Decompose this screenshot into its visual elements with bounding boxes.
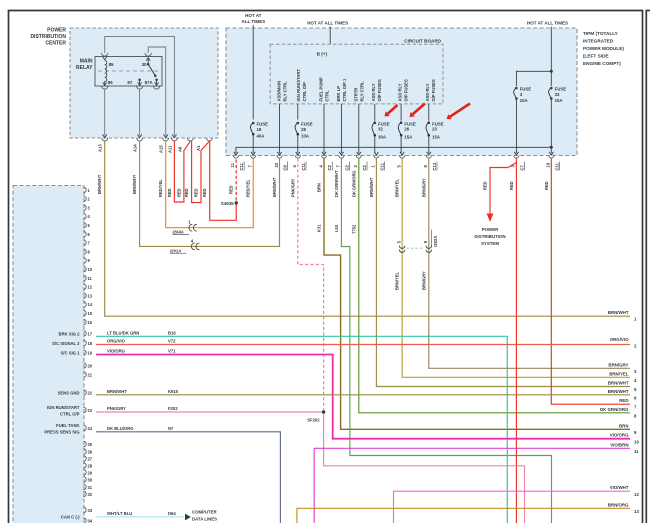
PCM connector pin 23 bump <box>84 407 87 412</box>
wire WHT/LT BLU pin 33 circuit D64 to computer data lines <box>96 516 184 518</box>
svg-text:A11: A11 <box>168 145 173 153</box>
PCM connector pin 14 bump <box>84 302 87 307</box>
adjacent page frame edge <box>646 11 650 523</box>
PCM connector pin 32 bump <box>84 491 87 496</box>
svg-text:BRN/GRY: BRN/GRY <box>421 178 426 197</box>
TIPM pin 2/C2 <box>357 152 361 155</box>
arrow to POWER DISTRIBUTION SYSTEM <box>487 214 494 223</box>
wire B+ feed to circuit board <box>329 27 331 45</box>
PDC pin A13 bump <box>102 138 108 141</box>
svg-text:CENTER: CENTER <box>45 41 66 47</box>
fuse F3 10A <box>514 87 532 103</box>
wire BRN/WHT pin 1 C11 to right edge row 5 <box>376 158 630 386</box>
svg-text:15A: 15A <box>404 135 412 140</box>
svg-text:POWER MODULE): POWER MODULE) <box>583 46 624 51</box>
svg-text:CIRCUIT BOARD: CIRCUIT BOARD <box>404 38 441 43</box>
svg-text:DATA LINES: DATA LINES <box>192 517 217 522</box>
svg-text:28: 28 <box>301 127 306 132</box>
svg-text:33: 33 <box>88 508 93 513</box>
TIPM pin 3/C7 <box>514 152 518 155</box>
svg-text:BRN/GRY: BRN/GRY <box>608 362 628 367</box>
splice S4935 <box>235 201 238 204</box>
wire feed to fuses 3 and 33 <box>550 27 552 87</box>
svg-text:CTRL: CTRL <box>325 90 330 102</box>
arrow at pin A11 <box>172 134 176 137</box>
svg-text:RED: RED <box>176 188 181 197</box>
PCM connector pin 7 bump <box>84 240 87 245</box>
svg-text:PRESS SENS SIG: PRESS SENS SIG <box>44 429 79 434</box>
svg-text:S/C SIG 1: S/C SIG 1 <box>61 350 81 355</box>
wire VIO/BRN from bottom edge to right edge row 11 <box>314 448 630 523</box>
svg-text:28: 28 <box>88 463 93 468</box>
svg-text:VIO/ORG: VIO/ORG <box>610 433 629 438</box>
arrow COMPUTER DATA LINES <box>185 514 191 521</box>
svg-text:PNK/GRY: PNK/GRY <box>107 406 126 411</box>
svg-text:C11: C11 <box>555 162 560 170</box>
svg-text:ASD/MAIN: ASD/MAIN <box>276 81 281 102</box>
svg-text:DK BLU/ORG: DK BLU/ORG <box>107 426 134 431</box>
svg-text:20: 20 <box>88 363 93 368</box>
PCM connector pin 31 bump <box>84 484 87 489</box>
PCM connector pin 2 bump <box>84 196 87 201</box>
svg-text:86: 86 <box>108 80 113 85</box>
svg-text:O/P FUSES: O/P FUSES <box>377 79 382 101</box>
svg-text:15: 15 <box>88 311 93 316</box>
svg-text:21: 21 <box>88 372 93 377</box>
svg-text:L53: L53 <box>334 224 339 232</box>
PCM connector pin 27 bump <box>84 456 87 461</box>
wire relay 30 loop to pin A15 <box>148 47 166 136</box>
svg-text:N7: N7 <box>168 426 174 431</box>
TIPM pin 8/C13 <box>427 152 431 155</box>
svg-text:C11: C11 <box>380 162 385 170</box>
wire fuse 18 to pin 7 <box>252 135 254 153</box>
wire BRN/GRY pin 8 C13 to right edge row 3 via I202A <box>429 158 630 368</box>
PCM connector pin 29 bump <box>84 470 87 475</box>
svg-text:BRN: BRN <box>619 423 629 428</box>
PCM connector pin 17 bump <box>84 331 87 336</box>
svg-text:30A: 30A <box>378 135 386 140</box>
svg-text:14: 14 <box>88 302 93 307</box>
PCM connector pin 22 bump <box>84 390 87 395</box>
svg-text:22: 22 <box>274 162 279 167</box>
svg-text:IGN RUN/START: IGN RUN/START <box>296 69 301 102</box>
svg-text:C11: C11 <box>301 162 306 170</box>
svg-text:ENGINE COMPT): ENGINE COMPT) <box>583 61 621 66</box>
TIPM pin 22/C8 <box>277 152 281 155</box>
svg-text:VIO/ORG: VIO/ORG <box>107 348 125 353</box>
PCM connector pin 6 bump <box>84 231 87 236</box>
svg-text:C2: C2 <box>345 164 350 170</box>
relay bottom bump pin 87 <box>137 86 143 89</box>
arrow at pin A13 <box>103 134 107 137</box>
svg-text:B (+): B (+) <box>317 52 328 57</box>
svg-text:VIO/WHT: VIO/WHT <box>610 485 629 490</box>
svg-text:POWER: POWER <box>47 28 66 34</box>
wire FUEL PUMP CTRL stub to pin 4 C2 <box>323 104 325 153</box>
PCM connector pin 10 bump <box>84 267 87 272</box>
svg-text:BRN/ORG: BRN/ORG <box>608 502 629 507</box>
wire fuse 28 to pin 4 C11 <box>297 135 299 153</box>
wire PNK/GRY SF202 down to bottom edge <box>324 414 525 523</box>
svg-text:12: 12 <box>88 285 93 290</box>
node junction fuse3/fuse33 feed <box>550 70 553 73</box>
wire DK GRN/ORG pin 2 C2 to right edge row 8 <box>359 158 630 412</box>
svg-text:S/C SIGNAL 2: S/C SIGNAL 2 <box>52 341 80 346</box>
PCM connector C1 box <box>13 186 84 523</box>
wire VIO/WHT from bottom edge to right edge row 12 <box>394 491 631 523</box>
svg-text:POWER: POWER <box>482 227 499 232</box>
PCM connector pin 1 bump <box>84 187 87 192</box>
svg-text:10A: 10A <box>555 98 563 103</box>
svg-text:K915: K915 <box>168 389 179 394</box>
TIPM pin 7 <box>251 152 255 155</box>
PCM connector pin 33 bump <box>84 507 87 512</box>
wire BRN/WHT pin 22 circuit K915 to right edge row 6 <box>96 394 630 396</box>
PCM connector pin 25 bump <box>84 441 87 446</box>
wire BRN/WHT pin A13 to right edge row 1 <box>105 141 630 316</box>
inline connector I202A pins 5 and 9 <box>399 246 405 249</box>
wire LT BLU/DK GRN pin 17 circuit B16 down to bottom edge <box>96 336 507 523</box>
svg-text:11: 11 <box>88 276 93 281</box>
svg-text:HOT AT ALL TIMES: HOT AT ALL TIMES <box>527 21 568 26</box>
svg-text:ORG/VIO: ORG/VIO <box>107 339 126 344</box>
svg-text:31: 31 <box>88 485 93 490</box>
svg-text:15A: 15A <box>432 135 440 140</box>
wire relay 85 loop to pin A11 <box>105 37 175 136</box>
PCM connector pin 4 bump <box>84 214 87 219</box>
svg-text:23: 23 <box>432 127 437 132</box>
svg-text:RED/YEL: RED/YEL <box>158 179 163 197</box>
wire BRN/YEL pin 5 to right edge row 4 via I202A <box>402 158 630 377</box>
svg-text:RLY CTRL: RLY CTRL <box>282 81 287 102</box>
svg-text:23: 23 <box>88 408 93 413</box>
wire fuse 23 to pin 8 C13 <box>428 137 430 154</box>
PCM connector pin 18 bump <box>84 340 87 345</box>
relay fixed contact 87A <box>155 78 158 81</box>
wire BRN/WHT pin A14 to TIPM pin 22 C8 via I201A <box>140 141 280 247</box>
svg-text:RED: RED <box>184 188 189 197</box>
TIPM pin 11/C11 <box>234 152 238 155</box>
relay coil 86 arrow down <box>104 81 106 84</box>
wire RED/YEL pin A15 to TIPM pin 7 via I204A <box>166 141 254 228</box>
PCM connector pin 9 bump <box>84 258 87 263</box>
svg-text:25: 25 <box>88 442 93 447</box>
svg-text:A6: A6 <box>178 146 183 152</box>
svg-text:BRK SIG 2: BRK SIG 2 <box>59 331 81 336</box>
wire fuse 33 to bus and pin 19 C11 <box>550 100 552 153</box>
node bus to fuse 33 junction <box>550 146 553 149</box>
PDC pin A1 bump <box>207 138 213 141</box>
fuse F23 15A <box>426 121 444 139</box>
svg-text:BRN/WHT: BRN/WHT <box>132 174 137 194</box>
wire ASD RLY stub to fuse 26 <box>400 104 402 121</box>
relay K1 MAIN RELAY box <box>95 57 162 87</box>
svg-text:13: 13 <box>88 293 93 298</box>
annotation arrow at fuse 26 <box>413 104 425 115</box>
svg-text:26: 26 <box>404 127 409 132</box>
svg-text:A14: A14 <box>133 144 138 152</box>
svg-text:FUEL PUMP: FUEL PUMP <box>319 77 324 101</box>
wire TIPM internal bus <box>236 147 551 153</box>
PCM connector pin 8 bump <box>84 249 87 254</box>
svg-text:DK GRN/ORG: DK GRN/ORG <box>351 170 356 197</box>
svg-text:S4935: S4935 <box>221 201 234 206</box>
relay top cup pin 30 <box>145 53 151 56</box>
svg-text:32: 32 <box>88 492 93 497</box>
svg-text:BRN/WHT: BRN/WHT <box>97 174 102 194</box>
svg-text:ASD RLY: ASD RLY <box>397 83 402 101</box>
svg-text:F202: F202 <box>168 406 178 411</box>
PCM connector pin 26 bump <box>84 449 87 454</box>
svg-text:RELAY: RELAY <box>76 65 93 71</box>
wire PNK/GRY pin 23 circuit F202 to splice SF202 <box>96 411 324 413</box>
svg-text:17: 17 <box>88 331 93 336</box>
svg-text:19: 19 <box>88 350 93 355</box>
svg-text:30: 30 <box>88 477 93 482</box>
wire RED pin 19 C11 to right edge row 7 <box>551 158 630 404</box>
PCM connector pin 12 bump <box>84 284 87 289</box>
svg-text:BRN/WHT: BRN/WHT <box>608 310 629 315</box>
svg-text:C13: C13 <box>432 162 437 170</box>
svg-text:(LEFT SIDE: (LEFT SIDE <box>583 54 609 59</box>
PCM connector pin 5 bump <box>84 223 87 228</box>
wire BRN/ORG from bottom edge to right edge row 13 <box>297 508 630 523</box>
svg-text:ASD RLY: ASD RLY <box>425 83 430 101</box>
svg-text:ORG/VIO: ORG/VIO <box>610 337 629 342</box>
relay pin 85 arrow down into coil <box>103 57 107 60</box>
TIPM pin 5 <box>400 152 404 155</box>
svg-text:V71: V71 <box>168 348 176 353</box>
wire VIO/ORG pin 19 circuit V71 to right edge row 10 <box>96 355 630 439</box>
relay top cup pin 85 <box>102 53 108 56</box>
wire DK GRN/WHT pin 7 C2 down to bottom edge <box>341 158 551 523</box>
svg-text:13: 13 <box>634 509 639 514</box>
svg-text:18: 18 <box>257 127 262 132</box>
svg-text:10A: 10A <box>301 134 309 139</box>
svg-text:RED: RED <box>167 188 172 197</box>
svg-text:RLY CTRL: RLY CTRL <box>360 81 365 102</box>
fuse F18 40A <box>250 122 268 139</box>
svg-text:A13: A13 <box>98 144 103 152</box>
svg-text:DK GRN/WHT: DK GRN/WHT <box>334 170 339 197</box>
TIPM pin 19/C11 <box>549 152 553 155</box>
TIPM pin 7/C2 <box>339 152 343 155</box>
svg-text:C11: C11 <box>239 162 244 170</box>
svg-text:RED: RED <box>229 185 234 194</box>
svg-text:18: 18 <box>88 341 93 346</box>
PCM connector pin 11 bump <box>84 275 87 280</box>
svg-text:IGN RUN/START: IGN RUN/START <box>47 405 80 410</box>
TIPM pin 4/C11 <box>296 152 300 155</box>
wire STRTR RLY CTRL stub to pin 2 C2 <box>358 104 360 153</box>
svg-text:CTRL O/P 1: CTRL O/P 1 <box>342 78 347 102</box>
TIPM pin 4/C2 <box>322 152 326 155</box>
PCM connector pin 28 bump <box>84 463 87 468</box>
svg-text:DK GRN/ORG: DK GRN/ORG <box>600 407 629 412</box>
relay bottom bump pin 86 <box>102 86 108 89</box>
svg-text:11: 11 <box>230 162 235 167</box>
PDC pin A6 bump <box>187 138 193 141</box>
TIPM module box <box>226 28 577 156</box>
wire ASD/MAIN RLY CTRL stub to pin 22 C8 <box>279 104 281 153</box>
svg-text:26: 26 <box>88 449 93 454</box>
PCM connector pin 19 bump <box>84 350 87 355</box>
PCM connector pin 13 bump <box>84 293 87 298</box>
wire BRK LP CTRL stub to pin 7 C2 <box>340 104 342 153</box>
svg-text:RED: RED <box>202 188 207 197</box>
circuit board box <box>270 44 443 104</box>
svg-text:BRN/WHT: BRN/WHT <box>608 381 629 386</box>
svg-text:BRN/WHT: BRN/WHT <box>272 177 277 197</box>
svg-text:RED: RED <box>483 181 488 190</box>
TIPM pin 1/C11 <box>374 152 378 155</box>
svg-text:12: 12 <box>634 492 639 497</box>
svg-text:C7: C7 <box>520 164 525 170</box>
wire fuse 26 to pin 5 <box>400 137 402 154</box>
wire feed to fuse 18 <box>252 25 254 120</box>
svg-text:RED: RED <box>509 181 514 190</box>
svg-text:LT BLU/DK GRN: LT BLU/DK GRN <box>107 330 139 335</box>
inline connector I204A pin 1 <box>189 224 192 231</box>
svg-text:A15: A15 <box>158 145 163 153</box>
arrow at pin A14 <box>138 134 142 137</box>
svg-text:V72: V72 <box>168 339 176 344</box>
PCM connector pin 21 bump <box>84 372 87 377</box>
svg-text:11: 11 <box>634 449 639 454</box>
PCM connector pin 16 bump <box>84 319 87 324</box>
svg-text:TIPM (TOTALLY: TIPM (TOTALLY <box>583 31 619 36</box>
annotation arrow at fuse 32 <box>388 105 398 114</box>
svg-text:C8: C8 <box>283 164 288 170</box>
relay fixed contact 87 <box>138 78 141 81</box>
svg-text:87: 87 <box>127 80 132 85</box>
svg-text:WHT/LT BLU: WHT/LT BLU <box>107 511 132 516</box>
PCM connector pin 20 bump <box>84 363 87 368</box>
svg-text:ALL TIMES: ALL TIMES <box>241 19 265 24</box>
svg-text:MAIN: MAIN <box>80 59 93 65</box>
svg-text:I202A: I202A <box>433 236 438 247</box>
svg-text:STRTR: STRTR <box>354 88 359 102</box>
PDC pin A15 bump <box>163 138 169 141</box>
wire relay 87 to pin A14 <box>139 89 141 135</box>
svg-text:RED: RED <box>194 188 199 197</box>
svg-text:40A: 40A <box>257 134 265 139</box>
svg-text:10: 10 <box>634 440 639 445</box>
PCM connector pin 30 bump <box>84 477 87 482</box>
wire ORG/VIO pin 18 circuit V72 to right edge row 2 <box>96 344 630 346</box>
svg-text:33: 33 <box>555 92 560 97</box>
relay contact 30 arrow up <box>147 58 149 64</box>
svg-text:A1: A1 <box>196 145 201 151</box>
svg-text:SENS GND: SENS GND <box>58 390 80 395</box>
wire ASD RLY stub to fuse 23 <box>428 104 430 121</box>
fuse F32 30A <box>372 121 390 139</box>
wire PNK/GRY dashed fuse28 pin 4 C11 to splice SF202 <box>298 158 324 410</box>
svg-text:RED: RED <box>544 181 549 190</box>
svg-text:C2: C2 <box>362 164 367 170</box>
inline connector I201A pin 4 <box>191 243 194 250</box>
svg-text:HOT AT: HOT AT <box>245 13 261 18</box>
relay coil (pins 85-86) <box>105 61 107 82</box>
svg-text:BRK LP: BRK LP <box>336 86 341 102</box>
svg-text:BRN/YEL: BRN/YEL <box>609 371 629 376</box>
svg-text:RED/YEL: RED/YEL <box>246 179 251 197</box>
wire DK BLU/ORG pin 24 circuit N7 down to bottom edge <box>96 432 280 523</box>
svg-text:CTRL O/P: CTRL O/P <box>60 411 80 416</box>
svg-text:34: 34 <box>88 518 93 523</box>
svg-text:B16: B16 <box>168 330 176 335</box>
svg-text:VIO/BRN: VIO/BRN <box>610 442 628 447</box>
svg-text:DISTRIBUTION: DISTRIBUTION <box>474 234 505 239</box>
svg-text:27: 27 <box>88 456 93 461</box>
svg-text:D64: D64 <box>168 511 176 516</box>
wire fuse 3 to pin 3 C7 <box>515 100 517 153</box>
svg-text:BRN/WHT: BRN/WHT <box>608 389 629 394</box>
svg-text:T752: T752 <box>351 224 356 234</box>
wire fuse 32 to pin 1 C11 <box>374 137 376 154</box>
svg-text:BRN: BRN <box>317 183 322 192</box>
svg-text:O/P FUSES: O/P FUSES <box>403 79 408 101</box>
svg-text:32: 32 <box>378 127 383 132</box>
annotation arrow at fuse 23 <box>450 104 470 117</box>
svg-text:10: 10 <box>88 267 93 272</box>
svg-text:SYSTEM: SYSTEM <box>481 241 499 246</box>
PCM connector pin 24 bump <box>84 425 87 430</box>
arrow at pin A15 <box>164 134 168 137</box>
svg-text:BRN/WHT: BRN/WHT <box>369 177 374 197</box>
wire RED pin A1 to splice S4935 <box>210 141 237 220</box>
PDC pin A11 bump <box>172 138 178 141</box>
relay bottom bump pin 87A <box>154 86 160 89</box>
wire RED dashed S4935 to TIPM pin 11 C11 <box>235 158 237 200</box>
PDC pin A14 bump <box>137 138 143 141</box>
svg-text:24: 24 <box>88 426 93 431</box>
svg-text:C2: C2 <box>327 164 332 170</box>
svg-text:O/P FUSES: O/P FUSES <box>431 79 436 101</box>
fuse F26 15A <box>398 121 416 139</box>
svg-text:RED: RED <box>619 398 628 403</box>
fuse F33 10A <box>549 87 567 103</box>
wire BRN pin 4 C2 to right edge row 9 <box>324 158 630 429</box>
svg-text:BRN/GRY: BRN/GRY <box>421 271 426 290</box>
wire relay 86 to pin A13 <box>104 89 106 135</box>
power distribution center box (PDC) <box>70 28 218 138</box>
svg-text:FUEL TANK: FUEL TANK <box>56 423 79 428</box>
wire RED jumper A6 to A1 <box>192 141 210 202</box>
svg-text:HOT AT ALL TIMES: HOT AT ALL TIMES <box>307 21 348 26</box>
svg-text:PNK/GRY: PNK/GRY <box>290 178 295 197</box>
splice SF202 <box>322 410 325 413</box>
relay mechanical link dashed line <box>98 70 159 72</box>
wire RED pin 3 C7 down to bottom edge <box>515 158 517 523</box>
svg-text:29: 29 <box>88 470 93 475</box>
svg-text:I201A: I201A <box>170 248 181 253</box>
wire RED branch to power distribution system <box>490 163 516 214</box>
svg-text:COMPUTER: COMPUTER <box>192 510 217 515</box>
svg-text:19: 19 <box>546 162 551 167</box>
svg-text:30: 30 <box>142 62 147 67</box>
PCM connector pin 3 bump <box>84 205 87 210</box>
fuse F28 10A <box>295 122 313 139</box>
svg-text:CAN C (-): CAN C (-) <box>61 514 80 519</box>
svg-text:BRN/YEL: BRN/YEL <box>395 179 400 197</box>
wire RED jumper A11 to A6 <box>174 141 190 202</box>
svg-text:I204A: I204A <box>173 230 184 235</box>
wire IGN RUN/START stub to fuse 28 <box>297 104 299 120</box>
svg-text:DISTRIBUTION: DISTRIBUTION <box>30 34 66 40</box>
svg-text:K31: K31 <box>317 224 322 232</box>
